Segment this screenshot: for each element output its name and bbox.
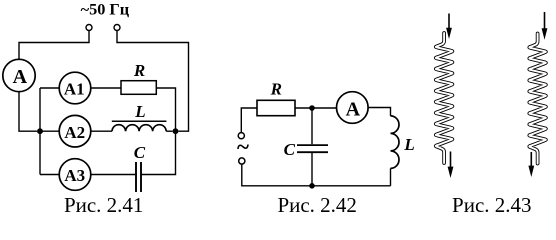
node junction right <box>173 128 179 134</box>
svg-text:~: ~ <box>237 135 249 160</box>
svg-text:A: A <box>13 66 28 88</box>
svg-text:Рис. 2.41: Рис. 2.41 <box>64 193 144 217</box>
svg-text:L: L <box>134 102 145 121</box>
arrow down into left spring <box>446 14 452 40</box>
svg-text:Рис. 2.43: Рис. 2.43 <box>452 193 532 217</box>
ammeter A2 <box>59 115 91 147</box>
wire <box>40 174 59 176</box>
wire <box>91 87 121 89</box>
svg-text:A: A <box>346 98 361 120</box>
arrow down out of left spring <box>448 152 454 179</box>
svg-text:C: C <box>284 140 296 159</box>
resistor R <box>257 100 295 115</box>
svg-text:R: R <box>270 80 282 99</box>
wire <box>19 31 89 60</box>
spring coil left <box>436 33 453 163</box>
wire <box>311 153 313 186</box>
wire <box>156 88 175 129</box>
resistor R <box>121 81 156 95</box>
terminal T2 <box>114 25 120 31</box>
terminal lower <box>239 158 245 164</box>
wire <box>141 134 175 175</box>
wire <box>390 168 392 185</box>
wire <box>241 108 257 133</box>
svg-text:~50 Гц: ~50 Гц <box>81 0 130 19</box>
svg-text:A1: A1 <box>64 80 85 99</box>
arrow down into right spring <box>542 12 548 40</box>
svg-text:Рис. 2.42: Рис. 2.42 <box>277 193 357 217</box>
svg-text:R: R <box>133 61 145 80</box>
wire <box>295 107 337 109</box>
wire <box>40 87 59 89</box>
wire <box>368 108 390 116</box>
wire <box>242 164 391 186</box>
node junction top <box>309 105 315 111</box>
wire <box>40 130 59 132</box>
terminal T1 <box>86 25 92 31</box>
inductor L core <box>112 120 167 122</box>
wire bus <box>39 88 41 175</box>
arrow down out of right spring <box>528 152 534 177</box>
ammeter A <box>3 59 35 91</box>
ammeter A <box>337 92 369 124</box>
terminal upper <box>238 133 244 139</box>
ammeter A3 <box>59 159 91 191</box>
svg-text:C: C <box>134 143 146 162</box>
capacitor C <box>136 162 141 192</box>
svg-text:A2: A2 <box>64 123 85 142</box>
wire <box>91 174 135 176</box>
wire <box>117 31 189 132</box>
node junction bottom <box>309 183 315 189</box>
wire <box>19 92 37 132</box>
spring coil right <box>529 34 546 164</box>
node junction left <box>37 128 43 134</box>
wire <box>311 108 313 144</box>
wire <box>166 130 172 132</box>
wire <box>91 130 112 132</box>
capacitor C <box>297 145 328 152</box>
inductor L <box>391 116 400 168</box>
ammeter A1 <box>59 72 91 104</box>
inductor L <box>112 125 166 132</box>
svg-text:A3: A3 <box>64 166 85 185</box>
svg-text:L: L <box>403 135 414 154</box>
